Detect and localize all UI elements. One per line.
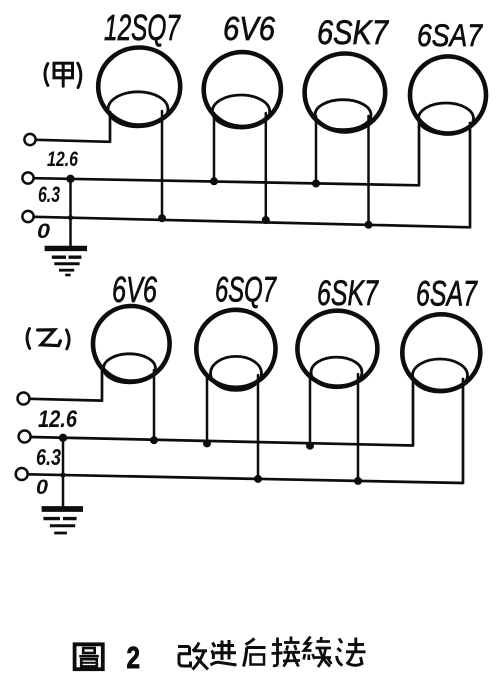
wire: 6V6 left pin to 12.6 bus (row A) [213, 113, 216, 181]
svg-text:6.3: 6.3 [38, 182, 60, 207]
wire: 6V6 right pin to 6.3 bus (row A) [265, 113, 268, 220]
junction: ground wire crossing 6.3 bus (row A) [68, 215, 73, 220]
wire: terminal A1 to 12SQ7 left filament pin [36, 112, 110, 142]
caption char 圖 (figure) [75, 644, 103, 669]
wire: 6.3 bus (row A) from terminal A3 to 6SA7 right pin [34, 123, 470, 227]
wire: 6.3 bus (row B) from terminal B3 to 6SA7 right pin [28, 379, 463, 483]
svg-text:6.3: 6.3 [36, 444, 61, 470]
junction: 6SQ7 right pin on 6.3 bus (row B) [254, 475, 262, 483]
terminal B3 (6.3V, row B) [16, 468, 28, 480]
junction: 6SQ7 left pin on 12.6 bus (row B) [203, 439, 211, 447]
tube 6SQ7 (row B) envelope [196, 310, 275, 391]
wire: 12.6 bus (row A) from terminal A2 to 6SA7 left pin [34, 121, 419, 185]
wire: ground tap from 12.6 bus (row B) [62, 439, 65, 506]
wire: 6SQ7 left pin to 12.6 bus (row B) [206, 375, 209, 443]
wire: 12SQ7 right filament pin to 6.3 bus [161, 111, 164, 218]
caption char 接 [272, 637, 301, 667]
junction: ground wire crossing 6.3 bus (row B) [60, 472, 65, 477]
terminal A3 (6.3V, row A) [22, 211, 33, 222]
terminal B1 (top input, row B) [18, 393, 30, 405]
tube 6V6 (row B) envelope [93, 306, 170, 383]
svg-text:12SQ7: 12SQ7 [104, 7, 181, 48]
terminal A1 (top input, row A) [24, 134, 35, 145]
caption char 后 [244, 639, 266, 667]
ground symbol (row A) [45, 248, 87, 275]
wire: 6V6 right pin to 12.6 bus (row B) [153, 370, 156, 440]
junction: 6V6 right pin on 6.3 bus (row A) [262, 216, 270, 224]
caption char 綫 [304, 637, 332, 668]
svg-text:12.6: 12.6 [47, 148, 78, 171]
junction: 6SK7 left pin on 12.6 bus (row B) [306, 442, 314, 450]
wire: 6SK7 right pin to 6.3 bus (row A) [367, 116, 370, 225]
wire: 12.6 bus (row B) from terminal B2 to 6SA7 left pin [31, 377, 413, 446]
svg-text:6V6: 6V6 [223, 11, 275, 48]
wire: ground tap from 12.6 bus (row A) [69, 179, 72, 247]
junction: 6V6 left pin on 12.6 bus (row A) [210, 177, 218, 185]
junction: 12SQ7 right pin on 6.3 bus [158, 214, 166, 222]
junction: ground tap on 12.6 bus (row B) [59, 434, 67, 442]
tube 6SK7 (row A) envelope [305, 54, 386, 132]
tube 6SA7 (row B) envelope [402, 314, 480, 392]
tube 6V6 (row A) envelope [204, 52, 281, 128]
tube 6V6 (row A) filament ellipse [212, 95, 269, 128]
label (乙) row B group marker [27, 329, 69, 349]
svg-text:6SQ7: 6SQ7 [215, 271, 277, 310]
junction: 6SK7 left pin on 12.6 bus (row A) [312, 180, 320, 188]
tube 6SK7 (row B) envelope [297, 311, 377, 388]
caption char 进 [211, 640, 237, 665]
junction: 6V6 right pin on 12.6 bus (row B) [150, 436, 158, 444]
svg-text:6SA7: 6SA7 [417, 17, 483, 53]
tube 6SA7 (row A) filament ellipse [419, 103, 474, 134]
svg-text:6V6: 6V6 [112, 269, 158, 310]
svg-text:0: 0 [37, 220, 50, 243]
tube 6SK7 (row A) filament ellipse [315, 100, 371, 130]
junction: ground tap on 12.6 bus (row A) [66, 175, 74, 183]
tube 6SQ7 (row B) filament ellipse [211, 356, 262, 390]
wire: 6SK7 left pin to 12.6 bus (row A) [315, 116, 318, 184]
svg-text:0: 0 [36, 476, 48, 499]
ground symbol (row B) [42, 509, 83, 533]
tube 12SQ7 envelope [98, 48, 180, 127]
wire: terminal B1 to 6V6 left filament pin (row B) [30, 369, 102, 401]
svg-text:6SK7: 6SK7 [317, 14, 390, 52]
svg-text:2: 2 [127, 640, 141, 675]
caption char 法 [337, 638, 366, 666]
label (甲) row A group marker [45, 63, 81, 87]
wire: 6SQ7 right pin to 6.3 bus (row B) [257, 375, 260, 479]
tube 6SK7 (row B) filament ellipse [311, 357, 362, 388]
tube 6V6 (row B) filament ellipse [104, 354, 156, 383]
svg-text:6SA7: 6SA7 [416, 274, 478, 314]
wire: 6SK7 left pin to 12.6 bus (row B) [309, 374, 312, 446]
junction: 6SK7 right pin on 6.3 bus (row A) [365, 221, 373, 229]
caption char 改 [178, 643, 208, 670]
terminal B2 (12.6V, row B) [19, 431, 31, 443]
svg-text:6SK7: 6SK7 [317, 274, 379, 313]
terminal A2 (12.6V, row A) [22, 172, 33, 183]
junction: 6SK7 right pin on 6.3 bus (row B) [354, 477, 362, 485]
tube 12SQ7 filament/heater ellipse [108, 92, 168, 127]
tube 6SA7 (row A) envelope [410, 56, 486, 134]
tube 6SA7 (row B) filament ellipse [413, 359, 468, 392]
wire: 6SK7 right pin to 6.3 bus (row B) [357, 374, 360, 481]
svg-text:12.6: 12.6 [38, 406, 78, 433]
